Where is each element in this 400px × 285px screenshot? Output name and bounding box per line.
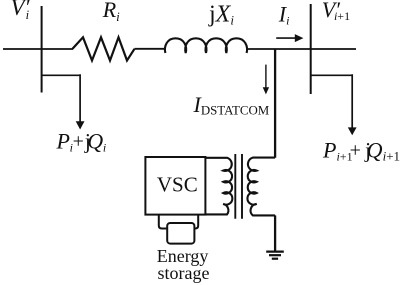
svg-text:storage: storage: [158, 263, 210, 283]
label V'i: [11, 0, 31, 22]
load arrow Pi+1+jQi+1: [348, 127, 357, 135]
converter VSC box: [145, 157, 205, 215]
transformer core: [235, 154, 242, 219]
label IDSTATCOM: [193, 92, 270, 118]
ground: [266, 252, 284, 259]
label Pi+jQi: [56, 129, 106, 155]
inductor jXi: [165, 38, 247, 53]
label Ii: [278, 2, 290, 28]
load arrow Pi+jQi: [76, 121, 85, 129]
wire feeder left segment: [3, 48, 73, 50]
svg-text:V′i+1: V′i+1: [322, 0, 350, 23]
transformer right winding: [247, 158, 275, 216]
label Energy storage: [157, 246, 210, 283]
bus V'i+1: [310, 4, 312, 94]
wire to ground: [274, 215, 276, 251]
svg-text:Pi+1+jQi+1: Pi+1+jQi+1: [322, 138, 400, 164]
wire DSTATCOM branch: [274, 49, 276, 158]
label Ri: [102, 0, 120, 24]
wire load branch left: [42, 74, 81, 122]
resistor Ri: [73, 37, 135, 60]
energy storage box: [167, 223, 194, 244]
svg-text:VSC: VSC: [157, 173, 198, 197]
svg-text:Pi+jQi: Pi+jQi: [56, 129, 106, 155]
svg-text:IDSTATCOM: IDSTATCOM: [193, 92, 270, 118]
svg-text:Ii: Ii: [278, 2, 290, 28]
label VSC: [157, 173, 198, 197]
wire feeder right segment: [246, 48, 356, 50]
current arrow Ii: [276, 34, 303, 42]
bus V'i: [41, 6, 43, 93]
wire between resistor and inductor: [135, 48, 167, 50]
wire load branch right: [311, 74, 353, 128]
svg-text:V′i: V′i: [11, 0, 31, 22]
energy storage connector bracket: [159, 215, 198, 229]
label jXi: [208, 2, 234, 28]
label V'i+1: [322, 0, 350, 23]
svg-text:jXi: jXi: [208, 2, 234, 28]
transformer left winding: [206, 158, 233, 215]
label Pi+1+jQi+1: [322, 138, 400, 164]
svg-text:Ri: Ri: [102, 0, 120, 24]
arrow IDSTATCOM: [263, 65, 269, 95]
